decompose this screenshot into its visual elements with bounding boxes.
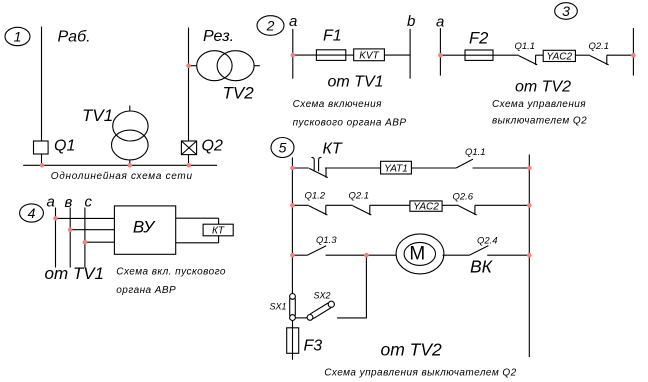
wire node-a to F1 [293,54,317,56]
svg-text:Q1.3: Q1.3 [316,235,337,246]
node left rail row1 [290,166,295,171]
coil YAC2 (scheme 3) [543,50,575,61]
wire TV2 stub right [254,65,260,67]
wire YAT1 to Q1.1 [411,167,456,169]
svg-text:Q1.2: Q1.2 [305,191,326,202]
svg-text:Q2: Q2 [202,138,223,155]
svg-text:TV1: TV1 [82,106,113,125]
transformer TV1 [112,111,149,160]
contact Q2.4 knife [469,246,488,256]
node left rail row2 [290,203,295,208]
coil YAC2 (scheme 5) [410,201,442,211]
wire F2 to Q1.1 [493,54,519,56]
wire KVT to b [384,54,410,56]
wire TV1 to bus [129,160,131,165]
svg-text:a: a [289,13,297,30]
fuse F1 [316,50,345,61]
fuse F2 [465,50,493,60]
svg-text:TV2: TV2 [223,84,255,103]
wire row2 rail to Q1.2 [292,204,308,206]
motor M [396,234,444,274]
svg-text:F3: F3 [304,338,323,355]
svg-text:выключателем Q2: выключателем Q2 [492,116,587,127]
wire working feeder line [41,27,43,142]
node left rail row3 [290,253,295,258]
wire Q2.1 to YAC2 [370,204,410,206]
contact Q1.2 [309,205,328,215]
relay KVT [354,49,385,61]
connector link SX1 [290,294,296,321]
wire KT to YAT1 [325,167,381,169]
wire phase a line (scheme 2) [292,29,294,79]
wire c to ВУ [85,241,115,243]
node motor branch junction [364,253,369,258]
wire F1 to KVT [346,54,354,56]
svg-text:в: в [65,194,73,211]
contact Q1.1 (scheme 3) [519,55,538,65]
svg-text:Однолинейная схема сети: Однолинейная схема сети [51,171,193,182]
svg-text:от TV1: от TV1 [328,74,384,91]
svg-text:КТ: КТ [212,226,225,237]
node a-F2 junction [438,53,443,58]
svg-text:SX1: SX1 [270,302,287,312]
node right line junction (scheme 3) [631,53,636,58]
wire phase a line (scheme 3) [439,28,441,76]
svg-text:Рез.: Рез. [203,28,234,45]
node right rail row2 [527,203,532,208]
svg-text:YAC2: YAC2 [547,51,573,62]
svg-text:2: 2 [266,18,275,34]
node bus-TV1 [128,163,133,168]
wire Q1 to bus [41,154,43,165]
block ВУ [114,206,175,254]
svg-text:Схема включения: Схема включения [293,99,383,110]
svg-text:b: b [407,13,415,30]
svg-text:KVT: KVT [359,51,379,62]
breaker Q1 [34,141,49,154]
svg-text:YAC2: YAC2 [413,201,439,212]
wire Q1.3 to motor [326,254,396,256]
contact Q2.1 (scheme 3) [590,55,609,65]
svg-text:1: 1 [14,29,22,45]
scheme label circle 4 [20,204,44,222]
node a tap (scheme 4) [53,216,58,221]
svg-text:Q2.1: Q2.1 [349,191,370,202]
svg-text:пускового органа АВР: пускового органа АВР [293,117,407,128]
svg-text:Q1: Q1 [54,138,75,155]
contact Q1.1 knife (scheme 5) [456,159,473,168]
wire a to ВУ [56,217,115,219]
svg-text:М: М [409,243,425,264]
breaker Q2 [181,141,196,155]
svg-text:F1: F1 [323,28,342,45]
svg-text:3: 3 [562,3,570,19]
contact Q1.3 knife [307,246,326,255]
svg-text:Q1.1: Q1.1 [465,147,486,158]
svg-text:Q2.6: Q2.6 [453,192,474,203]
svg-text:a: a [47,194,55,211]
svg-text:4: 4 [28,205,36,221]
connector link SX2 [307,301,334,320]
wire Q1.2 to Q2.1 [326,204,353,206]
svg-text:ВУ: ВУ [133,218,156,237]
wire node-a to F2 [440,54,465,56]
wire Q2.6 to right rail [475,204,529,206]
wire reserve feeder line [188,28,190,142]
wire Q1.1 to right rail [473,167,530,169]
wire SX1 to SX2 [295,317,307,319]
svg-text:Схема вкл. пускового: Схема вкл. пускового [116,266,226,277]
wire phase b line (scheme 2) [409,29,411,79]
scheme label circle 3 [555,3,578,20]
svg-text:КТ: КТ [323,141,343,158]
svg-text:ВК: ВК [470,257,494,277]
svg-text:Q1.1: Q1.1 [515,41,536,52]
wire Q2 to bus [188,155,190,166]
wire phase c line (scheme 4) [84,208,86,268]
node right rail row1 [527,166,532,171]
node a-F1 junction [291,53,296,58]
node bus-Q2 [187,163,192,168]
wire Q2.4 to right rail [487,254,529,256]
node bus-Q1 [40,163,45,168]
svg-text:Q2.4: Q2.4 [477,236,498,247]
contact KT time-delay [309,157,328,177]
transformer TV1 stub [129,106,131,112]
wire motor to Q2.4 [443,254,470,256]
svg-text:Q2.1: Q2.1 [589,41,610,52]
scheme label circle 1 [5,27,30,45]
wire TV2 stub left [189,65,197,67]
coil YAT1 [381,161,412,174]
svg-text:органа АВР: органа АВР [116,285,176,296]
svg-text:от TV1: от TV1 [45,264,105,283]
wire в to ВУ [70,229,114,231]
wire ВУ output bottom [176,242,219,244]
transformer TV2 [197,51,254,81]
wire row3 rail to Q1.3 [292,254,307,256]
relay КТ box (scheme 4) [203,224,233,236]
wire junction drop to SX2 [337,255,366,318]
node right rail row3 [527,253,532,258]
scheme label circle 2 [257,16,284,36]
svg-text:YAT1: YAT1 [384,164,408,175]
wire ВУ output vertical [218,218,220,243]
wire phase в line (scheme 4) [69,208,71,268]
svg-text:от TV2: от TV2 [381,340,443,360]
svg-text:Раб.: Раб. [58,29,91,46]
svg-text:F2: F2 [469,30,488,48]
wire right line (scheme 3) [632,28,634,76]
fuse F3 [287,320,299,359]
svg-text:a: a [436,13,444,30]
wire ВУ output top [176,217,219,219]
contact Q2.1 (scheme 5) [353,205,372,215]
contact Q2.6 [459,205,477,215]
node reserve-TV2 [186,63,191,68]
svg-text:SX2: SX2 [314,291,331,301]
node c tap (scheme 4) [83,240,88,245]
svg-text:c: c [85,194,93,211]
wire Q2.1 to right line [607,54,634,56]
scheme label circle 5 [271,138,294,158]
svg-text:Схема управления выключателем: Схема управления выключателем Q2 [324,367,516,378]
wire row1 rail to KT [292,167,308,169]
wire Q1.1 to YAC2 [535,54,543,56]
wire right rail [528,155,530,358]
wire phase a line (scheme 4) [55,208,57,268]
svg-text:от TV2: от TV2 [515,79,571,96]
wire YAC2 to Q2.1 [575,54,590,56]
wire bus bar [23,164,217,166]
wire left rail [291,158,293,294]
wire YAC2 to Q2.6 [442,204,458,206]
node в tap (scheme 4) [68,227,73,232]
svg-text:5: 5 [279,140,287,156]
svg-text:Схема управления: Схема управления [492,99,586,110]
